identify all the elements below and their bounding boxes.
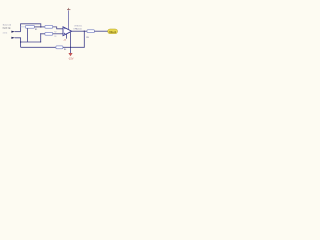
- op-amp minus mark: [64, 28, 65, 30]
- wire R1 to R2: [34, 26, 45, 28]
- V+ supply bar symbol: [67, 9, 70, 11]
- wire R3 to op-amp inverting input: [53, 33, 63, 35]
- svg-text:Balanced: Balanced: [3, 24, 11, 26]
- wire IN2 to left vertical: [15, 38, 21, 48]
- resistor R4: [56, 46, 63, 49]
- wire IN1 vertical up and top line to node A: [21, 24, 41, 32]
- wire R1 left: [21, 26, 26, 28]
- resistor R3: [45, 32, 53, 35]
- svg-text:Out: Out: [109, 30, 116, 34]
- rail B wire right and feedback vertical: [63, 31, 84, 47]
- feedback junction dot on output wire: [84, 31, 85, 32]
- rail B wire left: [21, 46, 56, 48]
- svg-text:R5: R5: [86, 37, 88, 39]
- negative supply vertical wire: [70, 32, 72, 53]
- node rail A left dot: [20, 41, 21, 42]
- wire R3 left to vertical: [41, 34, 45, 42]
- resistor R1: [26, 25, 35, 28]
- input port arrow IN2: [11, 37, 14, 39]
- svg-text:R4: R4: [64, 49, 66, 51]
- svg-text:R3: R3: [54, 36, 56, 38]
- wire R2 to op-amp non-inverting input: [53, 27, 63, 29]
- svg-text:(XLR): (XLR): [3, 33, 8, 35]
- node R3 corner dot: [40, 33, 41, 34]
- junction dot rail B / supply vertical: [70, 47, 71, 48]
- svg-text:-15V: -15V: [68, 57, 74, 61]
- wire IN1 horizontal: [15, 31, 21, 33]
- V+ supply plus tick: [68, 8, 70, 10]
- node A junction dot: [40, 26, 42, 28]
- VEE supply arrow: [68, 53, 72, 56]
- svg-text:input sig: input sig: [3, 27, 12, 30]
- svg-text:OPA1611: OPA1611: [73, 28, 82, 31]
- input port arrow IN1: [11, 31, 14, 33]
- resistor R2: [45, 25, 53, 28]
- wire vertical from R1 down to rail A: [27, 28, 29, 42]
- rail A wire: [21, 41, 41, 43]
- resistor R5: [87, 30, 94, 33]
- svg-text:R1: R1: [35, 29, 37, 31]
- node rail A right dot: [40, 41, 41, 42]
- output wire: [72, 30, 87, 32]
- op-amp V- pin stub: [66, 34, 68, 39]
- svg-text:OPA1611: OPA1611: [74, 24, 83, 27]
- wire R5 to output pill: [94, 30, 107, 32]
- op-amp plus mark: [64, 33, 65, 35]
- V+ supply vertical wire: [68, 10, 70, 29]
- op-amp U1 triangle: [63, 27, 72, 36]
- svg-text:R2: R2: [54, 31, 56, 33]
- svg-text:-15: -15: [63, 39, 66, 41]
- output net pill: [108, 29, 118, 34]
